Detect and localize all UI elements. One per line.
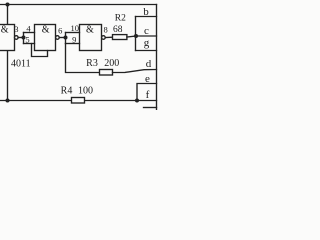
node bottom-left junction	[6, 99, 10, 103]
pin 3 output bubble	[14, 36, 18, 40]
wire segment c stub	[136, 35, 157, 37]
gate U1a box	[0, 25, 15, 51]
resistor R4 body	[72, 98, 85, 104]
node top-left junction	[6, 3, 10, 7]
node segment-f junction	[135, 99, 139, 103]
svg-text:e: e	[145, 73, 150, 85]
svg-text:200: 200	[104, 58, 119, 69]
svg-text:R4: R4	[61, 86, 73, 97]
gate U1c box	[80, 25, 102, 51]
wire pin6 to fork	[59, 37, 65, 39]
wire pin 4	[24, 32, 35, 34]
wire segment b stub	[136, 16, 157, 18]
wire pin8 to R2	[105, 36, 112, 38]
svg-text:4011: 4011	[11, 59, 31, 70]
wire R3 to segment d	[113, 70, 157, 73]
wire left bus lower	[7, 51, 9, 101]
svg-text:&: &	[42, 25, 50, 36]
svg-text:8: 8	[103, 24, 107, 34]
gate U1b box	[35, 25, 56, 51]
wire pin 9	[66, 43, 80, 45]
wire b-c-g tie vertical	[135, 17, 137, 51]
svg-text:f: f	[146, 89, 150, 101]
svg-text:5: 5	[25, 35, 29, 45]
wire segment e stub and drop to f node	[137, 84, 157, 101]
wire pin6 fork vertical	[65, 33, 67, 44]
wire display package left edge vertical	[156, 5, 158, 111]
node pin3 fork junction	[22, 36, 26, 40]
svg-text:&: &	[86, 25, 94, 36]
node segment-c junction	[134, 34, 138, 38]
wire bottom rail left of R4	[0, 100, 72, 102]
svg-text:68: 68	[113, 25, 123, 35]
svg-text:R2: R2	[115, 14, 126, 24]
pin 8 output bubble	[102, 36, 106, 40]
svg-text:9: 9	[72, 35, 76, 45]
wire pin3 to fork	[18, 37, 23, 39]
svg-text:3: 3	[14, 24, 18, 34]
wire display bottom stub	[144, 107, 157, 109]
resistor R2 body	[113, 35, 127, 40]
svg-text:6: 6	[58, 25, 62, 35]
wire left bus upper	[7, 5, 9, 25]
wire pin 10	[66, 32, 80, 34]
svg-text:d: d	[146, 58, 152, 70]
svg-text:b: b	[143, 6, 149, 18]
svg-text:100: 100	[78, 86, 93, 97]
wire segment g stub	[136, 50, 157, 52]
svg-text:g: g	[144, 37, 150, 49]
pin 7 tab under gate U1b	[32, 44, 48, 57]
node pin6 fork junction	[64, 36, 68, 40]
svg-text:&: &	[1, 25, 9, 36]
wire pin3 fork vertical	[23, 33, 25, 44]
svg-text:R3: R3	[86, 58, 98, 69]
pin 6 output bubble	[56, 36, 60, 40]
svg-text:10: 10	[71, 23, 80, 33]
wire top supply rail	[0, 4, 157, 6]
wire pin 5	[24, 43, 35, 45]
svg-text:c: c	[144, 25, 149, 37]
wire bottom rail right of R4	[85, 100, 157, 102]
wire R2 to node c	[127, 36, 136, 37]
wire feedback drop to R3	[66, 44, 100, 73]
resistor R3 body	[100, 70, 113, 76]
